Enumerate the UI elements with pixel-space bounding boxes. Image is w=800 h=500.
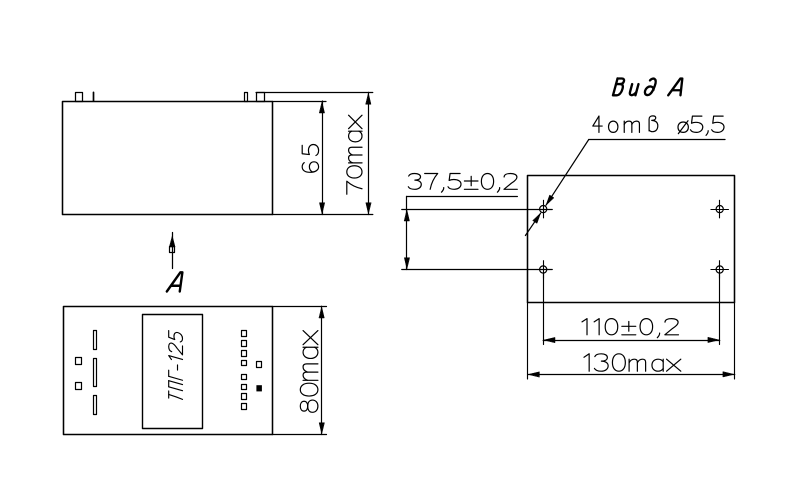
extension line from bottom-left hole for 37,5 (402, 269, 553, 271)
extension line: bottom edge for 80max (273, 434, 327, 436)
hole size label o5,5 (678, 116, 724, 135)
leader to hole with diameter arrows (525, 140, 588, 236)
side view: right thin terminal pin (245, 93, 248, 102)
extension line: body top edge for 65 (273, 101, 327, 103)
mounting hole bottom-right (711, 261, 729, 279)
dimension line 70max (366, 92, 371, 214)
top view: left vent slot 1 (94, 331, 97, 350)
extension line from top-left hole for 37,5 (402, 209, 553, 211)
dimension line 110 (543, 337, 720, 342)
mounting hole bottom-left (534, 261, 552, 279)
dimension line 65 (319, 101, 324, 215)
extension line from bottom-right hole for 110 (719, 273, 721, 344)
view-direction arrow pointing up (170, 233, 176, 269)
top view: left terminal square 2 (76, 383, 82, 390)
top view: right square pad 1 (257, 362, 262, 368)
side view: left mounting lug (76, 93, 83, 102)
top view: body outline (64, 307, 273, 435)
top view: left terminal square 1 (76, 358, 82, 365)
label text TPG-125 rotated (169, 331, 183, 400)
view label letter A bold italic (167, 272, 183, 291)
side view: right mounting lug (257, 93, 265, 102)
dimension line 80max (319, 306, 324, 434)
leader shelf under hole label (589, 139, 725, 141)
extension line: top of lugs for 70max (256, 92, 373, 94)
dimension text 65 (302, 145, 318, 173)
dimension text 37,5±0,2 (408, 174, 517, 193)
mounting hole top-right (711, 200, 729, 218)
extension line from bottom-left hole for 110 (543, 273, 545, 344)
top view: right square pad 2 filled (256, 385, 262, 391)
side view: left terminal pin (93, 92, 95, 101)
dimension text 110±0,2 (582, 319, 679, 338)
view title word Vid bold italic (613, 79, 656, 96)
extension line plate right edge for 130 (734, 303, 736, 380)
dimension line 130max (528, 372, 735, 377)
dimension text 130max (584, 354, 681, 371)
dimension text 70max (347, 115, 362, 194)
top view: label plate rectangle (143, 315, 203, 429)
top view: right terminal pad column of 8 (242, 331, 247, 410)
view title letter A bold italic (668, 79, 682, 96)
side view: transformer body outline (63, 102, 273, 215)
dimension shelf for 37,5 (407, 196, 518, 198)
hole count label 4otv (593, 116, 658, 133)
extension line: top edge for 80max (273, 306, 327, 308)
extension line: body bottom edge (273, 214, 373, 216)
top view: left vent slot 3 (94, 396, 97, 415)
mounting hole top-left (534, 200, 552, 218)
top view: left vent slot 2 (94, 359, 97, 387)
dimension text 80max (300, 331, 318, 413)
extension line plate left edge for 130 (527, 303, 529, 380)
mounting plate outline (528, 176, 735, 303)
dimension line 37,5 vertical (404, 196, 409, 269)
